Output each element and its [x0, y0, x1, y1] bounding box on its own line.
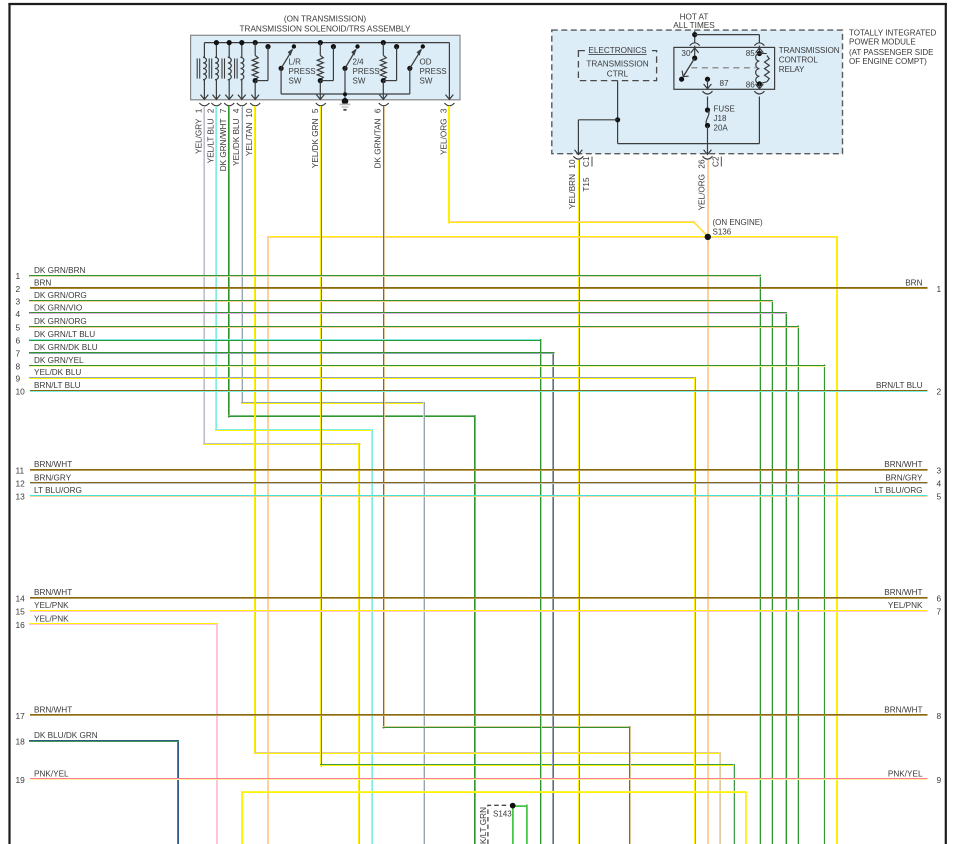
svg-text:9: 9 [16, 374, 21, 384]
OD pressure switch SW3 [407, 44, 425, 94]
svg-text:(ON ENGINE): (ON ENGINE) [713, 218, 764, 227]
svg-text:BRN/WHT: BRN/WHT [34, 460, 72, 469]
row 13 name label [34, 486, 82, 495]
svg-text:6: 6 [374, 108, 383, 113]
wire label DK/LT GRN [479, 807, 488, 844]
svg-text:26: 26 [697, 159, 706, 169]
splice S143 label [493, 810, 512, 819]
svg-text:BRN/WHT: BRN/WHT [884, 460, 922, 469]
C2 pin 26 label [697, 159, 706, 169]
fuse J18 20A [705, 107, 710, 128]
wire row 10 BRN/LT BLU [30, 391, 928, 392]
solenoid pin 1 number label [194, 108, 203, 113]
wire YEL/DK GRN pin5 [320, 106, 735, 844]
relay name label [779, 46, 840, 74]
svg-text:15: 15 [16, 606, 26, 616]
svg-text:BRN/GRY: BRN/GRY [34, 473, 72, 482]
svg-text:20A: 20A [714, 124, 729, 133]
connector arc relay pin 30 [690, 43, 700, 48]
svg-text:12: 12 [16, 479, 26, 489]
wire row 3 DK GRN/ORG [29, 300, 773, 844]
connector C2 arc [703, 156, 713, 159]
svg-text:ALL TIMES: ALL TIMES [673, 21, 715, 30]
svg-text:1: 1 [937, 284, 942, 294]
solenoid pin 6 number label [374, 108, 383, 113]
L/R PRESS SW label [289, 58, 316, 86]
svg-text:87: 87 [720, 79, 730, 88]
row 7 number label [16, 348, 21, 358]
row 4 name label [34, 304, 82, 313]
svg-text:10: 10 [245, 108, 254, 118]
svg-text:1: 1 [16, 271, 21, 281]
solenoid pin 3 number label [439, 108, 448, 113]
wire label YEL/ORG [697, 174, 706, 210]
svg-text:BRN/WHT: BRN/WHT [34, 705, 72, 714]
svg-text:4: 4 [16, 309, 21, 319]
row 2 number label [16, 284, 21, 294]
wire row 17 BRN/WHT [30, 715, 928, 716]
wire LT GRN S143 down [513, 807, 514, 844]
svg-text:LT BLU/ORG: LT BLU/ORG [875, 486, 923, 495]
wire label YEL/BRN [568, 174, 577, 209]
wire row 1 DK GRN/BRN [29, 275, 761, 844]
2/4 pressure switch SW2 [342, 44, 359, 100]
pin3 bus drop wire [446, 43, 454, 100]
svg-text:C1: C1 [582, 156, 591, 167]
wire row 7 DK GRN/DK BLU [29, 352, 554, 844]
row 9 number label [16, 374, 21, 384]
svg-text:7: 7 [219, 108, 228, 113]
wire DK GRN/TAN pin6 [383, 106, 632, 844]
splice S136 label [713, 218, 764, 237]
svg-text:BRN: BRN [34, 279, 51, 288]
svg-text:DK GRN/ORG: DK GRN/ORG [34, 317, 87, 326]
svg-text:S143: S143 [493, 810, 512, 819]
wire name label YEL/DK BLU [232, 118, 241, 165]
TIPM dashed box [552, 30, 843, 154]
row 8 name label [34, 356, 84, 365]
row 15 number label [16, 606, 26, 616]
svg-text:4: 4 [232, 108, 241, 113]
svg-text:YEL/LT BLU: YEL/LT BLU [206, 118, 215, 163]
connector arc solenoid pin 6 [379, 103, 389, 106]
svg-text:2/4: 2/4 [353, 58, 365, 67]
svg-text:DK/LT GRN: DK/LT GRN [479, 807, 488, 844]
solenoid pin 2 number label [206, 108, 215, 113]
svg-text:YEL/ORG: YEL/ORG [697, 174, 706, 210]
resistor R2 (pin5) [316, 40, 336, 99]
svg-text:DK GRN/WHT: DK GRN/WHT [219, 119, 228, 172]
wire row 8 DK GRN/YEL [29, 365, 825, 844]
svg-text:CTRL: CTRL [607, 69, 629, 78]
svg-text:BRN/LT BLU: BRN/LT BLU [34, 381, 81, 390]
row 1 name label [34, 266, 85, 275]
svg-text:YEL/DK BLU: YEL/DK BLU [232, 118, 241, 165]
wire LT GRN S143 right [513, 805, 528, 844]
relay pin 30 label [681, 49, 691, 58]
row 13 number label [16, 492, 26, 502]
svg-text:J18: J18 [714, 114, 727, 123]
row 1 number label [16, 271, 21, 281]
svg-text:5: 5 [311, 108, 320, 113]
svg-text:POWER MODULE: POWER MODULE [849, 37, 916, 46]
svg-text:86: 86 [746, 81, 756, 90]
svg-text:4: 4 [937, 479, 942, 489]
wire name label DK GRN/TAN [374, 118, 383, 168]
svg-text:BRN/WHT: BRN/WHT [884, 588, 922, 597]
wire row 4 DK GRN/VIO [29, 313, 787, 844]
svg-text:DK GRN/TAN: DK GRN/TAN [374, 118, 383, 168]
svg-text:PRESS: PRESS [420, 67, 447, 76]
wire YEL/ORG C2-26 to S136 [708, 160, 709, 237]
row 7 name label [34, 343, 98, 352]
wire row 19 PNK/YEL [30, 779, 928, 780]
relay coil parallel resistor [759, 54, 769, 84]
right wire name label YEL/PNK [888, 601, 923, 610]
row 2 name label [34, 279, 51, 288]
solenoid coil L1 (pin1 solenoid coil) [197, 43, 208, 100]
wire ctrl to C1 exit [575, 120, 618, 155]
svg-text:OD: OD [420, 58, 432, 67]
relay coil terminal 86 [756, 81, 764, 89]
row 11 name label [34, 460, 72, 469]
HOT AT ALL TIMES label [673, 13, 715, 30]
right pin 3 number label [937, 465, 942, 475]
wire row 9 YEL/DK BLU [29, 377, 696, 844]
wire row 18 DK BLU/DK GRN [29, 740, 179, 844]
svg-text:(AT PASSENGER SIDE: (AT PASSENGER SIDE [849, 48, 933, 57]
TIPM label [849, 28, 937, 66]
wire YEL/LT BLU pin2 [215, 106, 372, 844]
solenoid coil L2 (pin2 solenoid coil) [209, 40, 220, 99]
svg-text:C2: C2 [712, 156, 721, 167]
relay pin 86 label [746, 81, 756, 90]
svg-text:YEL/PNK: YEL/PNK [888, 601, 923, 610]
wire name label YEL/LT BLU [206, 118, 215, 163]
relay coil [756, 54, 760, 84]
right wire name label PNK/YEL [888, 770, 923, 779]
svg-text:1: 1 [194, 108, 203, 113]
wire row 5 DK GRN/ORG [29, 326, 799, 844]
svg-text:TRANSMISSION SOLENOID/TRS ASSE: TRANSMISSION SOLENOID/TRS ASSEMBLY [240, 25, 411, 34]
right pin 7 number label [937, 606, 942, 616]
svg-text:85: 85 [746, 49, 756, 58]
resistor R1 (pin10) [251, 40, 270, 99]
connector arc solenoid pin 4 [237, 103, 247, 106]
svg-text:17: 17 [16, 711, 26, 721]
svg-text:YEL/BRN: YEL/BRN [568, 174, 577, 209]
OD PRESS SW label [420, 58, 447, 86]
svg-text:6: 6 [937, 594, 942, 604]
row 5 number label [16, 322, 21, 332]
svg-text:10: 10 [16, 386, 26, 396]
connector arc below relay pin 86 [754, 91, 764, 94]
wire row 15 YEL/PNK [30, 611, 928, 612]
wire name label YEL/DK GRN [311, 118, 320, 168]
row 12 name label [34, 473, 72, 482]
wire row 2 BRN [30, 288, 928, 289]
wire DK GRN/WHT pin7 [228, 106, 476, 844]
svg-text:3: 3 [937, 465, 942, 475]
svg-text:8: 8 [937, 711, 942, 721]
wire YEL/DK BLU pin4 [241, 106, 425, 844]
resistor R3 (pin6) [379, 40, 399, 99]
svg-text:BRN/WHT: BRN/WHT [884, 705, 922, 714]
svg-text:CONTROL: CONTROL [779, 56, 819, 65]
svg-text:DK BLU/DK GRN: DK BLU/DK GRN [34, 731, 98, 740]
connector arc solenoid pin 2 [211, 103, 221, 106]
svg-text:8: 8 [16, 361, 21, 371]
svg-text:TOTALLY INTEGRATED: TOTALLY INTEGRATED [849, 28, 937, 37]
right pin 1 number label [937, 284, 942, 294]
solenoid pin 5 number label [311, 108, 320, 113]
right pin 2 number label [937, 386, 942, 396]
svg-text:S136: S136 [713, 228, 732, 237]
svg-text:T15: T15 [582, 177, 591, 192]
svg-text:2: 2 [206, 108, 215, 113]
wire row 14 BRN/WHT [30, 598, 928, 599]
connector arc below relay pin 87 [703, 91, 713, 94]
svg-text:PNK/YEL: PNK/YEL [888, 770, 923, 779]
connector arc solenoid pin 7 [224, 103, 234, 106]
right wire name label BRN/WHT [884, 705, 922, 714]
svg-text:TRANSMISSION: TRANSMISSION [586, 60, 648, 69]
solenoid coil L4 (pin4 solenoid coil) [235, 40, 246, 99]
wire name label YEL/TAN [245, 122, 254, 156]
svg-text:3: 3 [16, 297, 21, 307]
svg-text:L/R: L/R [289, 58, 302, 67]
solenoid/TRS assembly box [191, 35, 460, 100]
relay pin 87 terminal [704, 77, 712, 89]
row 16 number label [16, 620, 26, 630]
right wire name label BRN/WHT [884, 588, 922, 597]
wire YEL bridge lower [241, 791, 747, 844]
svg-text:LT BLU/ORG: LT BLU/ORG [34, 486, 82, 495]
right pin 5 number label [937, 492, 942, 502]
row 14 name label [34, 588, 72, 597]
svg-text:2: 2 [937, 386, 942, 396]
wire row 11 BRN/WHT [30, 470, 928, 471]
row 19 number label [16, 775, 26, 785]
wire fuse to C2 exit [704, 126, 712, 155]
svg-text:YEL/TAN: YEL/TAN [245, 122, 254, 156]
TRANSMISSION CTRL label [586, 60, 648, 79]
connector C1 label [582, 156, 592, 167]
wire relay pin86 to electronics [618, 97, 760, 144]
solenoid pin 4 number label [232, 108, 241, 113]
svg-text:(ON TRANSMISSION): (ON TRANSMISSION) [284, 15, 366, 24]
wire row 16 YEL/PNK [29, 623, 218, 844]
svg-text:9: 9 [937, 775, 942, 785]
connector arc solenoid pin 1 [199, 103, 209, 106]
svg-text:5: 5 [937, 492, 942, 502]
svg-text:2: 2 [16, 284, 21, 294]
svg-text:YEL/DK GRN: YEL/DK GRN [311, 118, 320, 168]
wire YEL/GRY pin1 [203, 106, 360, 844]
svg-text:6: 6 [16, 336, 21, 346]
right wire name label LT BLU/ORG [875, 486, 923, 495]
solenoid box title [240, 15, 411, 34]
svg-text:PNK/YEL: PNK/YEL [34, 770, 69, 779]
svg-text:YEL/PNK: YEL/PNK [34, 614, 69, 623]
svg-text:7: 7 [16, 348, 21, 358]
row 12 number label [16, 479, 26, 489]
connector arc solenoid pin 3 [444, 103, 454, 106]
row 17 name label [34, 705, 72, 714]
wire name label YEL/GRY [194, 118, 203, 154]
relay pin 87 label [720, 79, 730, 88]
wire YEL/ORG S136 down [708, 237, 709, 844]
svg-text:DK GRN/VIO: DK GRN/VIO [34, 304, 82, 313]
svg-text:RELAY: RELAY [779, 65, 805, 74]
row 8 number label [16, 361, 21, 371]
row 14 number label [16, 594, 26, 604]
row 9 name label [34, 368, 81, 377]
svg-text:DK GRN/BRN: DK GRN/BRN [34, 266, 85, 275]
row 18 number label [16, 737, 26, 747]
ground G100 [340, 92, 351, 110]
right pin 8 number label [937, 711, 942, 721]
wire relay87 to fuse [707, 97, 709, 111]
row 10 name label [34, 381, 81, 390]
svg-text:SW: SW [289, 77, 302, 86]
row 6 name label [34, 330, 95, 339]
row 3 name label [34, 291, 87, 300]
splice S143 dashed lead [488, 805, 508, 844]
svg-text:BRN/LT BLU: BRN/LT BLU [876, 381, 923, 390]
wire name label DK GRN/WHT [219, 119, 228, 172]
svg-text:SW: SW [353, 77, 366, 86]
wire YEL/BRN C1-10 vertical [579, 160, 580, 844]
wire YEL/ORG S136 left branch [267, 236, 709, 844]
wire YEL/ORG S136 right branch [708, 236, 838, 844]
solenoid coil L3 (pin7 solenoid coil) [222, 40, 233, 99]
svg-text:YEL/PNK: YEL/PNK [34, 601, 69, 610]
row 16 name label [34, 614, 69, 623]
C1 pin 10 label [568, 159, 577, 169]
connector C1 arc [573, 156, 583, 159]
solenoid internal bus wire [204, 42, 449, 44]
connector T15 label [582, 177, 591, 192]
wire row 13 LT BLU/ORG [30, 496, 928, 497]
right wire name label BRN/GRY [885, 473, 923, 482]
svg-text:10: 10 [568, 159, 577, 169]
svg-text:TRANSMISSION: TRANSMISSION [779, 46, 840, 55]
wire YEL/ORG pin3 branch [448, 106, 708, 236]
row 3 number label [16, 297, 21, 307]
ELECTRONICS TRANSMISSION CTRL box [578, 46, 656, 80]
svg-text:16: 16 [16, 620, 26, 630]
row 5 name label [34, 317, 87, 326]
connector arc solenoid pin 10 [250, 103, 260, 106]
row 17 number label [16, 711, 26, 721]
solenoid pin 10 number label [245, 108, 254, 118]
svg-text:BRN/WHT: BRN/WHT [34, 588, 72, 597]
svg-text:13: 13 [16, 492, 26, 502]
svg-text:SW: SW [420, 77, 433, 86]
right pin 9 number label [937, 775, 942, 785]
svg-text:14: 14 [16, 594, 26, 604]
solenoid pin 7 number label [219, 108, 228, 113]
right wire name label BRN/LT BLU [876, 381, 923, 390]
ELECTRONICS label [588, 46, 647, 55]
svg-text:30: 30 [681, 49, 691, 58]
connector C2 label [712, 156, 722, 167]
connector arc solenoid pin 5 [316, 103, 326, 106]
wire row 12 BRN/GRY [30, 483, 928, 484]
svg-text:5: 5 [16, 322, 21, 332]
svg-text:DK GRN/DK BLU: DK GRN/DK BLU [34, 343, 98, 352]
svg-text:PRESS: PRESS [289, 67, 316, 76]
switch common rail wire [281, 93, 410, 95]
row 18 name label [34, 731, 98, 740]
row 19 name label [34, 770, 69, 779]
svg-text:PRESS: PRESS [353, 67, 380, 76]
svg-text:19: 19 [16, 775, 26, 785]
relay pin 30 terminal [691, 48, 699, 61]
svg-text:7: 7 [937, 606, 942, 616]
svg-text:YEL/ORG: YEL/ORG [439, 119, 448, 155]
relay switch blade [679, 58, 695, 82]
transmission control relay box [674, 47, 775, 89]
wire YEL/TAN pin10 [254, 106, 721, 844]
right pin 6 number label [937, 594, 942, 604]
svg-text:DK GRN/LT BLU: DK GRN/LT BLU [34, 330, 95, 339]
svg-text:BRN: BRN [905, 279, 922, 288]
svg-text:OF ENGINE COMPT): OF ENGINE COMPT) [849, 57, 927, 66]
fuse label [714, 105, 735, 133]
relay pin 85 label [746, 49, 756, 58]
connector arc relay pin 85 [754, 43, 764, 48]
row 10 number label [16, 386, 26, 396]
svg-text:18: 18 [16, 737, 26, 747]
svg-text:YEL/GRY: YEL/GRY [194, 118, 203, 154]
relay coil terminal 85 [756, 48, 764, 56]
row 4 number label [16, 309, 21, 319]
svg-text:BRN/GRY: BRN/GRY [885, 473, 923, 482]
svg-text:DK GRN/YEL: DK GRN/YEL [34, 356, 84, 365]
splice S136 [705, 234, 711, 240]
right pin 4 number label [937, 479, 942, 489]
svg-text:ELECTRONICS: ELECTRONICS [588, 46, 647, 55]
wire ctrl drop [615, 81, 620, 144]
svg-text:YEL/DK BLU: YEL/DK BLU [34, 368, 81, 377]
wire name label YEL/ORG [439, 119, 448, 155]
feed wire hot-at-all-times [692, 31, 759, 43]
svg-text:DK GRN/ORG: DK GRN/ORG [34, 291, 87, 300]
2/4 PRESS SW label [353, 58, 380, 86]
svg-text:FUSE: FUSE [714, 105, 735, 114]
svg-text:11: 11 [16, 465, 25, 475]
svg-text:3: 3 [439, 108, 448, 113]
L/R pressure switch SW1 [279, 44, 297, 94]
splice S143 [510, 803, 516, 809]
right wire name label BRN [905, 279, 922, 288]
right wire name label BRN/WHT [884, 460, 922, 469]
wire row 6 DK GRN/LT BLU [29, 339, 542, 844]
row 6 number label [16, 336, 21, 346]
row 15 name label [34, 601, 69, 610]
relay mech dashed link [691, 67, 755, 69]
row 11 number label [16, 465, 25, 475]
